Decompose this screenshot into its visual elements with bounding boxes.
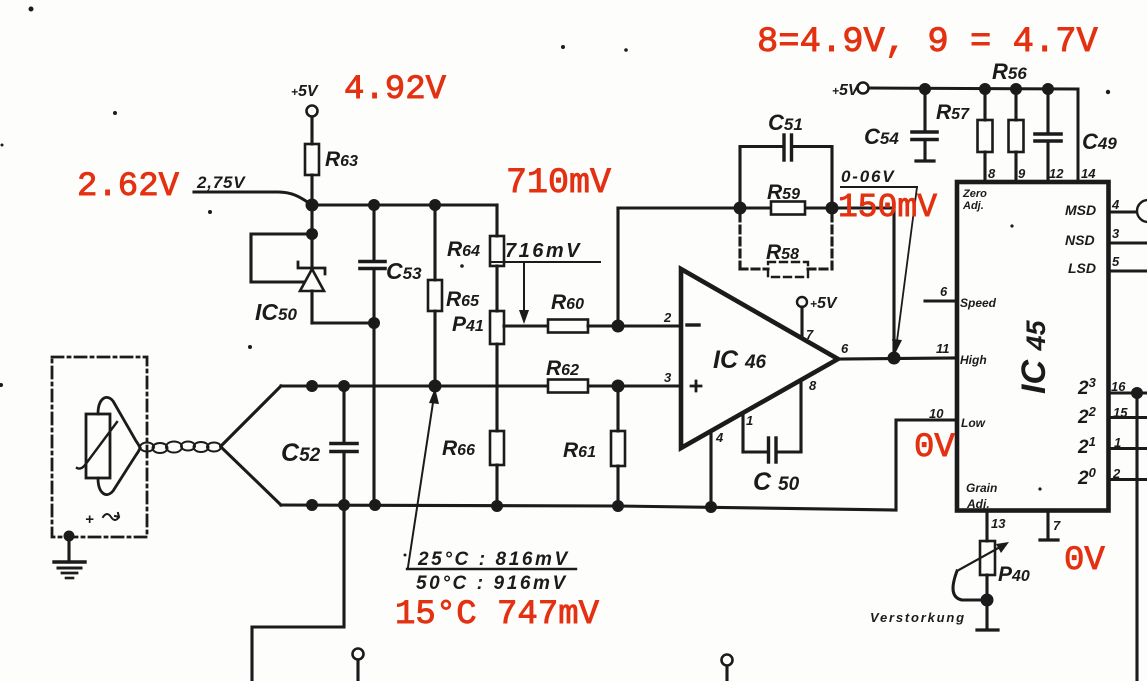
power +5V terminal (top right) xyxy=(832,82,869,99)
svg-text:2.62V: 2.62V xyxy=(77,168,180,206)
svg-text:2: 2 xyxy=(663,310,672,325)
svg-text:23: 23 xyxy=(1077,375,1097,399)
sensor enclosure (dash-dot box) xyxy=(52,357,147,537)
svg-text:15: 15 xyxy=(1113,405,1128,420)
svg-text:C51: C51 xyxy=(768,110,803,135)
terminal (bottom left) xyxy=(353,649,364,681)
resistor R58 (dashed option) xyxy=(740,214,832,277)
resistor R61 xyxy=(563,386,625,506)
svg-text:R58: R58 xyxy=(766,241,799,264)
resistor R63 xyxy=(305,144,358,175)
wire 2.75V rail y=205 xyxy=(312,203,497,206)
resistor R60 xyxy=(548,291,588,333)
svg-text:6: 6 xyxy=(841,341,849,356)
junction dots on 2.75V rail xyxy=(368,199,441,211)
svg-text:16: 16 xyxy=(1111,379,1126,394)
pin 5 LSD wire xyxy=(1109,254,1147,271)
callout 0-06V with arrow to output node xyxy=(841,167,917,354)
svg-text:2,75V: 2,75V xyxy=(196,173,246,192)
wire feedback drop to pin2 xyxy=(616,208,619,326)
wire R66 to ground rail xyxy=(495,465,498,506)
terminal (bottom middle) xyxy=(722,655,733,681)
capacitor C52 xyxy=(281,386,357,505)
svg-text:R56: R56 xyxy=(992,59,1027,84)
callout 25C/50C with arrow to node xyxy=(407,388,576,594)
svg-text:Adj.: Adj. xyxy=(966,497,990,511)
svg-text:12: 12 xyxy=(1049,166,1064,181)
wire bus vertical xyxy=(1135,393,1138,681)
wire P41 to R66 xyxy=(495,344,498,431)
svg-text:3: 3 xyxy=(1112,226,1120,241)
junction dots on top rail xyxy=(306,380,442,393)
svg-text:716mV: 716mV xyxy=(505,240,582,262)
wire +5V rail top right xyxy=(869,88,1078,182)
svg-text:IC 45: IC 45 xyxy=(1015,320,1053,394)
svg-text:Zero: Zero xyxy=(962,188,987,200)
svg-text:R60: R60 xyxy=(551,291,584,314)
svg-text:13: 13 xyxy=(991,516,1006,531)
svg-text:R59: R59 xyxy=(767,181,800,204)
pin 13 stub xyxy=(987,511,1006,542)
svg-text:1: 1 xyxy=(1114,435,1121,450)
svg-text:R65: R65 xyxy=(446,288,480,311)
svg-text:8=4.9V, 9 = 4.7V: 8=4.9V, 9 = 4.7V xyxy=(757,21,1099,62)
svg-text:IC 46: IC 46 xyxy=(713,346,767,374)
svg-text:Low: Low xyxy=(961,416,986,430)
svg-text:P41: P41 xyxy=(452,313,484,336)
svg-text:0-06V: 0-06V xyxy=(841,167,895,186)
svg-text:4.92V: 4.92V xyxy=(344,71,447,109)
svg-text:Speed: Speed xyxy=(960,296,997,310)
svg-text:+5V: +5V xyxy=(832,82,860,99)
resistor R59 xyxy=(767,181,805,215)
svg-text:50°C : 916mV: 50°C : 916mV xyxy=(416,573,568,594)
junction dots on ground rail xyxy=(306,499,717,513)
svg-text:LSD: LSD xyxy=(1068,260,1096,276)
svg-text:R62: R62 xyxy=(546,357,579,380)
wire R60 to op-amp pin2 xyxy=(588,324,681,327)
pin 3 NSD wire xyxy=(1109,226,1147,243)
wire node to IC50 xyxy=(310,205,313,236)
junction bus dot xyxy=(1131,387,1143,399)
pin 1 stub xyxy=(743,413,753,452)
callout 716mV with arrow xyxy=(490,240,600,324)
junction IC50 top xyxy=(306,228,318,240)
svg-text:IC50: IC50 xyxy=(255,299,297,325)
svg-text:C53: C53 xyxy=(386,258,422,284)
svg-text:+: + xyxy=(85,511,94,528)
display terminal circle xyxy=(1137,200,1147,222)
wire fork upper (to +input rail) xyxy=(221,386,281,446)
svg-text:C54: C54 xyxy=(864,124,899,149)
potentiometer P40 xyxy=(953,541,1030,630)
resistor R65 xyxy=(428,205,480,386)
svg-text:0V: 0V xyxy=(914,429,955,467)
resistor R57 xyxy=(936,89,993,182)
pin 8 stub xyxy=(801,378,817,452)
wire feedback horizontal xyxy=(618,206,894,209)
wire 2.75V feed xyxy=(194,192,309,203)
node 2.75V junction xyxy=(306,199,319,212)
wire R64 branch top xyxy=(495,205,498,236)
svg-text:R61: R61 xyxy=(563,439,596,462)
svg-text:710mV: 710mV xyxy=(506,163,611,203)
IC45 body xyxy=(957,182,1109,511)
capacitor C50 xyxy=(743,438,801,496)
svg-text:R64: R64 xyxy=(447,238,480,261)
svg-text:11: 11 xyxy=(936,341,950,356)
resistor R62 xyxy=(546,357,588,393)
svg-text:6: 6 xyxy=(940,284,948,299)
svg-text:21: 21 xyxy=(1077,434,1096,458)
junction output node xyxy=(888,352,901,365)
svg-text:P40: P40 xyxy=(998,563,1030,586)
junction feedback/pin2 xyxy=(612,320,625,333)
svg-text:8: 8 xyxy=(809,378,817,393)
scan specks xyxy=(0,7,1110,557)
capacitor C54 xyxy=(864,89,937,161)
svg-text:2: 2 xyxy=(1112,466,1121,481)
svg-text:25°C : 816mV: 25°C : 816mV xyxy=(417,549,570,570)
svg-text:9: 9 xyxy=(1018,166,1026,181)
pin 6 Speed stub xyxy=(925,284,957,301)
capacitor C53 xyxy=(360,205,422,505)
wire R64 to P41 xyxy=(495,266,498,311)
wire fork lower (to ground rail) xyxy=(221,447,281,505)
svg-text:5: 5 xyxy=(1112,254,1120,269)
wire feedback vertical xyxy=(892,208,895,358)
junction R59 left xyxy=(734,202,747,215)
wire +5V to R63 xyxy=(310,117,313,144)
svg-text:Adj.: Adj. xyxy=(962,200,984,212)
svg-text:22: 22 xyxy=(1077,404,1097,428)
svg-text:Verstorkung: Verstorkung xyxy=(870,610,966,625)
svg-text:14: 14 xyxy=(1081,166,1096,181)
wire IC50 anode to C53 line xyxy=(312,321,374,324)
svg-text:20: 20 xyxy=(1077,465,1097,489)
pin 7 stub (IC45) xyxy=(1040,511,1061,541)
svg-text:1: 1 xyxy=(746,413,753,428)
svg-text:7: 7 xyxy=(806,327,814,342)
pin 1 bus wire xyxy=(1109,435,1147,450)
svg-text:8: 8 xyxy=(988,166,996,181)
junction dots +5V rail xyxy=(919,83,1054,95)
svg-text:R63: R63 xyxy=(325,148,358,171)
svg-text:Grain: Grain xyxy=(966,481,997,495)
shunt reference IC50 (box + zener) xyxy=(251,234,325,325)
svg-text:4: 4 xyxy=(715,430,724,445)
svg-text:3: 3 xyxy=(664,370,672,385)
op-amp IC46 xyxy=(681,269,838,448)
potentiometer P41 xyxy=(452,311,504,344)
resistor R66 xyxy=(442,431,504,465)
svg-text:R66: R66 xyxy=(442,437,475,460)
pin 2 bus wire xyxy=(1109,466,1147,481)
svg-text:MSD: MSD xyxy=(1065,202,1096,218)
junction P40 xyxy=(981,594,994,607)
svg-text:+5V: +5V xyxy=(810,295,838,312)
wire P41 wiper to R60 xyxy=(504,324,548,327)
wire sensor top rail y=386 xyxy=(281,384,681,387)
svg-text:C52: C52 xyxy=(281,439,321,467)
wire op-amp output xyxy=(838,358,957,359)
svg-text:NSD: NSD xyxy=(1065,232,1095,248)
capacitor C51 xyxy=(740,110,832,208)
ground (sensor box) xyxy=(54,531,85,579)
capacitor C49 xyxy=(1035,89,1117,182)
thermistor sensor element xyxy=(77,397,140,528)
wire ground rail y=505 xyxy=(281,420,957,510)
svg-text:High: High xyxy=(960,353,987,367)
svg-text:C49: C49 xyxy=(1082,129,1117,154)
svg-text:10: 10 xyxy=(929,406,944,421)
junction IC50/C53 xyxy=(368,317,380,329)
wire C52 down to edge connector xyxy=(252,505,344,681)
svg-text:150mV: 150mV xyxy=(838,189,937,226)
pin 15 bus wire xyxy=(1109,405,1147,420)
svg-text:7: 7 xyxy=(1053,518,1061,533)
resistor R56 xyxy=(992,59,1027,182)
twisted-pair wire xyxy=(140,442,221,454)
wire R63 to 2.75V node xyxy=(310,175,313,205)
pin 4 MSD wire xyxy=(1109,197,1137,212)
svg-text:0V: 0V xyxy=(1064,542,1105,580)
junction R59 right xyxy=(826,202,839,215)
svg-text:R57: R57 xyxy=(936,101,970,124)
svg-text:C 50: C 50 xyxy=(753,468,800,496)
svg-text:4: 4 xyxy=(1111,197,1120,212)
power +5V terminal (left) xyxy=(291,83,319,117)
junction R62/R61/pin3 xyxy=(612,380,625,393)
svg-text:15°C 747mV: 15°C 747mV xyxy=(395,596,600,634)
svg-text:+5V: +5V xyxy=(291,83,319,100)
pin 4 stub xyxy=(711,430,724,507)
pin 16 bus wire xyxy=(1109,379,1147,394)
resistor R64 xyxy=(447,236,504,266)
power +5V terminal (op-amp pin 7) xyxy=(797,295,838,342)
